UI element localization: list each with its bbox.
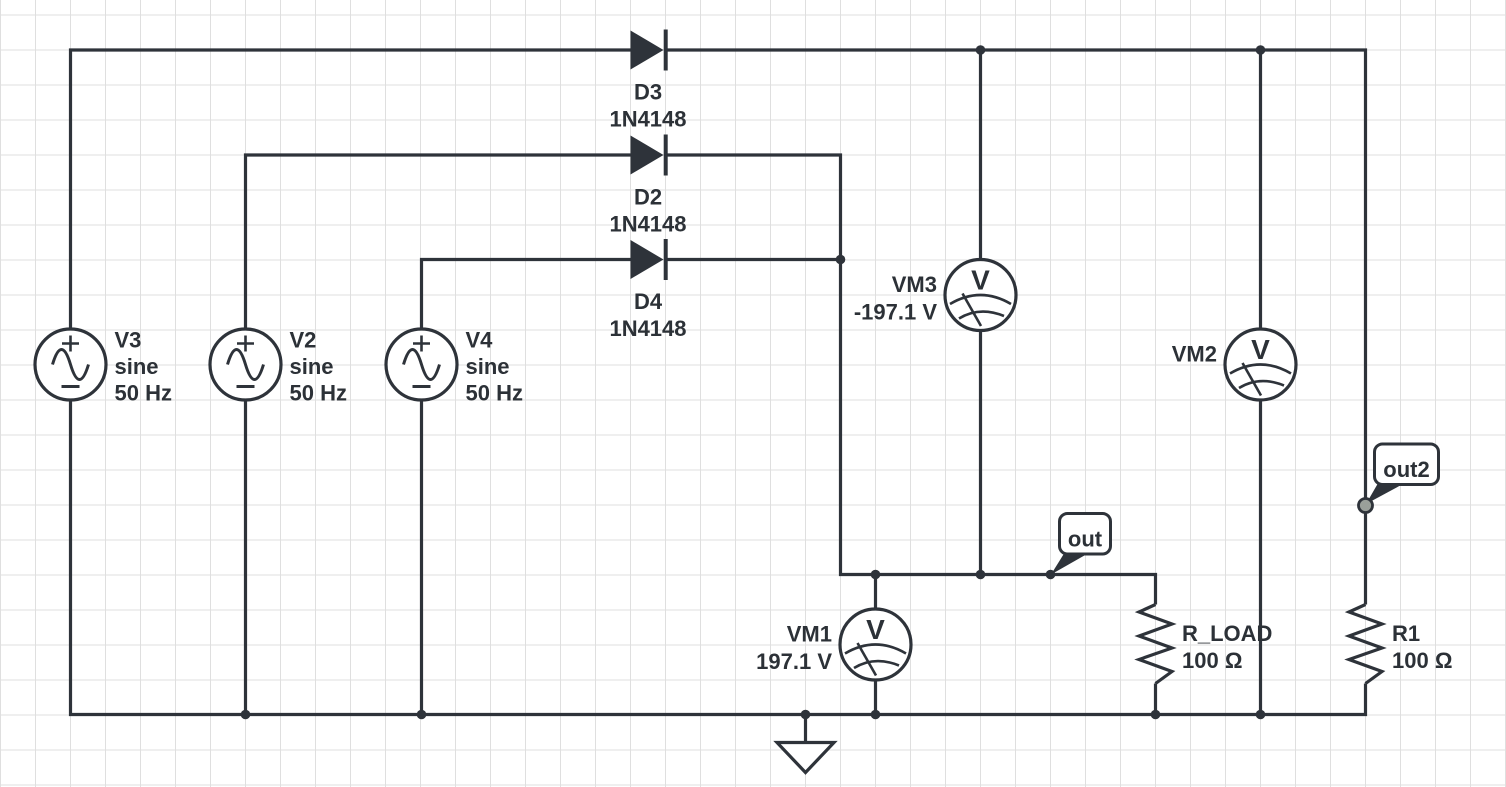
junction at (875.5, 714.5) ground bus / VM1 (871, 710, 881, 720)
svg-text:VM3: VM3 (892, 272, 937, 297)
junction at (245.5, 714.5) ground bus / V2 (241, 710, 251, 720)
svg-text:50 Hz: 50 Hz (466, 381, 523, 406)
wire D4 cathode to junction (666, 258, 841, 261)
wire V2 top lead to D2 anode (246, 155, 631, 329)
label V3 value (115, 328, 172, 406)
diode D2 (631, 135, 666, 176)
svg-text:R_LOAD: R_LOAD (1182, 621, 1272, 646)
svg-text:1N4148: 1N4148 (609, 107, 686, 132)
wire top bus to VM2 top terminal (1259, 50, 1262, 329)
voltmeter VM1 (840, 609, 911, 680)
wire V4 top lead to D4 anode (422, 260, 631, 330)
resistor R_LOAD (1139, 605, 1172, 684)
junction at (980.5, 50) top bus / VM3 branch (976, 45, 986, 55)
svg-text:D2: D2 (634, 185, 662, 210)
junction at (840.5, 259.5) D4 cathode / D2 bus (836, 255, 846, 265)
label R_LOAD value (1182, 621, 1272, 673)
svg-text:100 Ω: 100 Ω (1182, 648, 1242, 673)
label V4 value (466, 328, 523, 406)
svg-text:VM1: VM1 (787, 622, 832, 647)
wire VM1 bottom terminal to ground bus (874, 680, 877, 715)
svg-text:out2: out2 (1383, 457, 1429, 482)
wire V2 bottom lead (244, 400, 247, 715)
label V2 value (290, 328, 347, 406)
wire D2 cathode down to out bus and R_LOAD top lead (666, 155, 1156, 605)
svg-text:R1: R1 (1392, 621, 1420, 646)
svg-text:V3: V3 (115, 328, 142, 353)
junction at (875.5, 574.5) out bus / VM1 branch (871, 570, 881, 580)
node out (named net callout) (1046, 514, 1111, 580)
label VM3 reading (854, 272, 937, 325)
diode D3 (631, 30, 666, 71)
wire V4 bottom lead (420, 400, 423, 715)
voltage source V2 (sine, 50 Hz) (210, 329, 281, 400)
svg-text:V: V (866, 614, 885, 645)
junction at (1155.5, 714.5) ground bus / R_LOAD (1151, 710, 1161, 720)
svg-text:100 Ω: 100 Ω (1392, 648, 1452, 673)
wire out bus to VM1 top terminal (874, 575, 877, 610)
voltage source V4 (sine, 50 Hz) (386, 329, 457, 400)
junction at (421.5, 714.5) ground bus / V4 (417, 710, 427, 720)
svg-text:V: V (1251, 334, 1270, 365)
label VM1 reading (756, 622, 832, 675)
junction at (1260.5, 50) top bus / VM2 branch (1256, 45, 1266, 55)
svg-text:-197.1 V: -197.1 V (854, 300, 937, 325)
svg-text:D4: D4 (634, 289, 663, 314)
label VM2 reading (1172, 342, 1217, 367)
resistor R1 (1349, 605, 1382, 684)
label D2 1N4148 (609, 185, 686, 237)
voltmeter VM2 (1225, 329, 1296, 400)
wire top bus to VM3 top terminal (979, 50, 982, 260)
svg-text:sine: sine (466, 354, 510, 379)
svg-text:sine: sine (290, 354, 334, 379)
label R1 value (1392, 621, 1452, 673)
junction at (1260.5, 714.5) ground bus / VM2 (1256, 710, 1266, 720)
diode D4 (631, 239, 666, 280)
voltmeter VM3 (945, 260, 1016, 331)
svg-text:1N4148: 1N4148 (609, 212, 686, 237)
wire ground bus (V3 bottom lead to R1 bottom lead) (71, 400, 1366, 715)
svg-text:out: out (1068, 527, 1103, 552)
svg-text:V: V (971, 265, 990, 296)
label D4 1N4148 (609, 289, 686, 341)
svg-text:1N4148: 1N4148 (609, 316, 686, 341)
svg-text:VM2: VM2 (1172, 342, 1217, 367)
voltage source V3 (sine, 50 Hz) (35, 329, 106, 400)
svg-text:V2: V2 (290, 328, 317, 353)
wire VM3 bottom terminal to out bus (979, 331, 982, 575)
label D3 1N4148 (609, 80, 686, 132)
svg-text:50 Hz: 50 Hz (115, 381, 172, 406)
ground (777, 743, 834, 773)
wire R_LOAD bottom lead (1154, 684, 1157, 715)
node out2 (named net callout) (1359, 444, 1439, 513)
junction at (980.5, 574.5) out bus / VM3 branch (976, 570, 986, 580)
wire ground stub (804, 715, 807, 743)
svg-text:D3: D3 (634, 80, 662, 105)
wire V3 top lead to D3 anode (71, 50, 631, 329)
svg-text:197.1 V: 197.1 V (756, 649, 832, 674)
svg-text:sine: sine (115, 354, 159, 379)
junction at (805.5, 714.5) ground bus / ground symbol (801, 710, 811, 720)
wire D3 cathode to top-right corner down to R1 (666, 50, 1366, 605)
svg-text:V4: V4 (466, 328, 494, 353)
svg-text:50 Hz: 50 Hz (290, 381, 347, 406)
wire VM2 bottom terminal to ground bus (1259, 400, 1262, 715)
